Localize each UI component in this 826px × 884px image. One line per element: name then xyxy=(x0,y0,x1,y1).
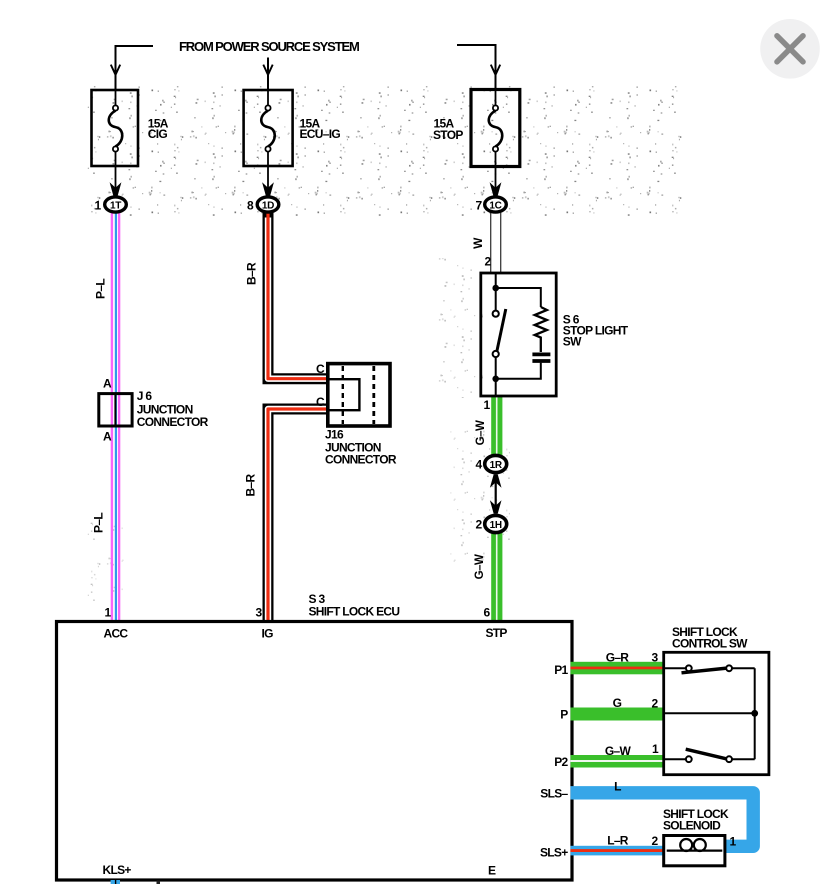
svg-text:1R: 1R xyxy=(490,460,503,471)
svg-text:C: C xyxy=(316,362,325,376)
svg-text:2: 2 xyxy=(485,255,492,269)
svg-text:SW: SW xyxy=(563,335,582,349)
svg-text:IG: IG xyxy=(262,627,274,641)
svg-text:3: 3 xyxy=(652,651,659,665)
svg-text:J 6: J 6 xyxy=(137,389,153,403)
svg-text:B–R: B–R xyxy=(244,474,258,497)
svg-text:SLS+: SLS+ xyxy=(540,846,568,860)
svg-text:CONNECTOR: CONNECTOR xyxy=(137,415,209,429)
svg-text:8: 8 xyxy=(247,199,254,213)
svg-text:ECU–IG: ECU–IG xyxy=(300,127,341,141)
svg-text:G–R: G–R xyxy=(606,651,630,665)
svg-text:J16: J16 xyxy=(325,428,344,442)
svg-text:1: 1 xyxy=(95,199,102,213)
svg-text:W: W xyxy=(471,237,485,249)
svg-text:ACC: ACC xyxy=(104,627,129,641)
svg-text:B–R: B–R xyxy=(245,262,259,285)
svg-text:G: G xyxy=(613,696,622,710)
svg-text:G–W: G–W xyxy=(474,554,486,579)
svg-text:E: E xyxy=(488,864,496,878)
svg-text:A: A xyxy=(103,377,112,391)
svg-text:P2: P2 xyxy=(554,755,568,769)
svg-text:2: 2 xyxy=(652,697,659,711)
svg-text:1T: 1T xyxy=(110,200,121,211)
svg-text:7: 7 xyxy=(476,199,483,213)
svg-text:3: 3 xyxy=(256,606,263,620)
svg-text:A: A xyxy=(103,430,112,444)
svg-text:C: C xyxy=(316,395,325,409)
svg-text:FROM POWER SOURCE SYSTEM: FROM POWER SOURCE SYSTEM xyxy=(179,39,359,54)
svg-text:6: 6 xyxy=(484,606,491,620)
svg-text:1: 1 xyxy=(105,606,112,620)
svg-text:1D: 1D xyxy=(262,200,274,211)
svg-text:G–W: G–W xyxy=(475,420,487,445)
svg-text:2: 2 xyxy=(652,834,659,848)
svg-text:CIG: CIG xyxy=(148,127,168,141)
svg-text:2: 2 xyxy=(476,518,483,532)
svg-text:CONNECTOR: CONNECTOR xyxy=(325,453,397,467)
svg-text:4: 4 xyxy=(476,458,483,472)
svg-text:SOLENOID: SOLENOID xyxy=(663,819,721,833)
svg-text:L–R: L–R xyxy=(607,834,629,848)
svg-text:STOP: STOP xyxy=(433,128,463,142)
svg-text:1H: 1H xyxy=(490,520,502,531)
svg-text:G–W: G–W xyxy=(605,744,632,758)
svg-text:L: L xyxy=(614,780,621,794)
svg-text:P–L: P–L xyxy=(94,279,108,299)
svg-text:1: 1 xyxy=(730,835,737,849)
svg-text:1C: 1C xyxy=(489,200,501,211)
svg-text:1: 1 xyxy=(484,398,491,412)
svg-text:P: P xyxy=(560,708,568,722)
svg-text:SHIFT LOCK ECU: SHIFT LOCK ECU xyxy=(309,605,400,619)
svg-text:CONTROL SW: CONTROL SW xyxy=(672,637,748,651)
svg-text:P–L: P–L xyxy=(92,513,106,533)
svg-text:STP: STP xyxy=(486,626,508,640)
svg-text:SLS–: SLS– xyxy=(540,787,568,801)
svg-text:KLS+: KLS+ xyxy=(103,863,132,877)
svg-text:P1: P1 xyxy=(554,663,568,677)
svg-text:1: 1 xyxy=(652,742,659,756)
